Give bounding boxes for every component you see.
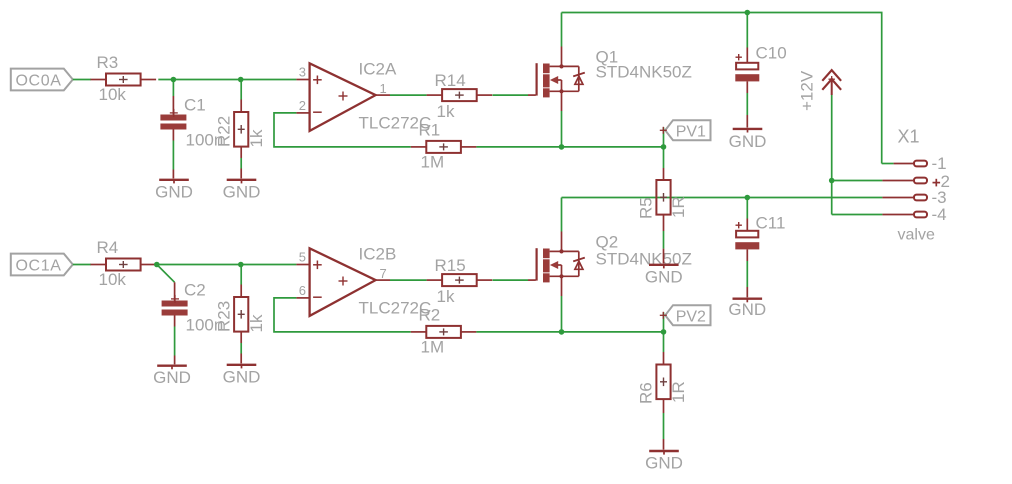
resistor R4 10k — [91, 238, 157, 289]
svg-text:R6: R6 — [637, 382, 656, 404]
wire junction to R22 — [240, 80, 242, 113]
supply +12V — [798, 70, 842, 111]
svg-text:10k: 10k — [99, 85, 127, 104]
ground below C10 — [729, 81, 767, 150]
wire OC0A to R3 — [73, 79, 91, 81]
wire junction to R23 — [240, 265, 242, 298]
net flag PV2 — [660, 305, 711, 332]
svg-text:R14: R14 — [435, 71, 466, 90]
wire feedback IC2A pin 2 to R1 — [274, 113, 411, 147]
junction node PV1 — [661, 144, 667, 150]
capacitor C11 — [735, 214, 785, 250]
wire R4 to IC2B pin 5 — [157, 264, 297, 266]
wire PV2 node to R6 — [663, 332, 665, 365]
svg-text:R22: R22 — [215, 116, 234, 147]
junction Q2 source — [559, 329, 565, 335]
junction top rail to C10 — [745, 10, 751, 16]
wire Q2 source to PV2 row — [561, 296, 563, 332]
junction -3 net to C11 — [745, 195, 751, 201]
wire top rail +12V net — [562, 13, 882, 164]
junction node C1 — [171, 77, 177, 83]
wire R14 to Q1 gate — [493, 94, 529, 96]
junction node R22 — [238, 77, 244, 83]
svg-text:GND: GND — [155, 182, 193, 201]
svg-text:1R: 1R — [669, 196, 688, 218]
svg-text:-4: -4 — [932, 205, 947, 224]
svg-text:1k: 1k — [247, 314, 266, 332]
svg-text:R3: R3 — [97, 53, 119, 72]
svg-text:R4: R4 — [97, 238, 119, 257]
junction node PV2 — [661, 329, 667, 335]
svg-text:C1: C1 — [184, 96, 206, 115]
junction node C2 — [154, 262, 160, 268]
svg-text:C2: C2 — [184, 281, 206, 300]
svg-text:GND: GND — [728, 300, 766, 319]
svg-text:C10: C10 — [756, 44, 787, 63]
svg-text:R1: R1 — [419, 121, 441, 140]
resistor R2 1M — [411, 306, 477, 357]
svg-text:GND: GND — [223, 367, 261, 386]
wire junction to C2 (diagonal) — [157, 265, 175, 301]
svg-text:IC2A: IC2A — [359, 60, 397, 79]
connector X1 name — [898, 127, 920, 147]
svg-text:6: 6 — [299, 283, 306, 298]
ground below R6 — [645, 399, 683, 472]
wire OC1A to R4 — [73, 264, 91, 266]
capacitor C2 100n — [162, 281, 224, 335]
svg-text:STD4NK50Z: STD4NK50Z — [596, 63, 692, 82]
X1 pin 3 — [882, 188, 946, 207]
svg-text:7: 7 — [380, 266, 387, 281]
svg-text:GND: GND — [645, 454, 683, 473]
junction node R23 — [238, 262, 244, 268]
wire Q1 source to PV1 row — [561, 111, 563, 147]
svg-text:10k: 10k — [99, 270, 127, 289]
wire IC2B output to R15 — [390, 279, 427, 281]
junction Q1 source — [559, 144, 565, 150]
transistor Q2 STD4NK50Z — [528, 232, 692, 297]
resistor R6 1R — [637, 365, 689, 405]
wire -3 net row — [562, 198, 883, 232]
svg-text:R2: R2 — [419, 306, 441, 325]
svg-text:1M: 1M — [421, 338, 445, 357]
resistor R5 1R — [637, 180, 689, 219]
svg-text:PV2: PV2 — [676, 308, 706, 325]
svg-text:-1: -1 — [932, 154, 947, 173]
svg-text:OC1A: OC1A — [16, 257, 62, 274]
op-amp IC2B TLC272C — [296, 245, 431, 318]
X1 value valve — [898, 227, 935, 244]
svg-text:GND: GND — [153, 368, 191, 387]
svg-text:1R: 1R — [669, 381, 688, 403]
svg-text:OC0A: OC0A — [16, 72, 62, 89]
svg-text:PV1: PV1 — [676, 123, 706, 140]
op-amp IC2A TLC272C — [296, 60, 431, 133]
X1 pin 1 — [882, 154, 947, 173]
svg-text:1M: 1M — [421, 153, 445, 172]
net flag OC1A — [11, 254, 73, 276]
wire junction to C1 — [172, 80, 174, 115]
wire rail to C10 — [746, 13, 748, 63]
net flag OC0A — [11, 69, 73, 91]
svg-text:R15: R15 — [435, 256, 466, 275]
ground below R23 — [223, 332, 261, 387]
svg-text:1k: 1k — [437, 287, 455, 306]
resistor R15 1k — [427, 256, 493, 306]
wire R2 to node PV2 — [476, 331, 663, 333]
resistor R1 1M — [411, 121, 477, 172]
net flag PV1 — [660, 120, 711, 147]
ground below C1 — [155, 130, 193, 202]
ground below C2 — [153, 316, 191, 388]
svg-text:GND: GND — [645, 267, 683, 286]
X1 pin 2 — [882, 172, 950, 191]
svg-text:GND: GND — [729, 132, 767, 151]
svg-text:C11: C11 — [756, 214, 786, 233]
wire feedback IC2B pin 6 to R2 — [274, 298, 411, 332]
svg-text:+12V: +12V — [798, 70, 817, 111]
wire R1 to node PV1 — [476, 146, 663, 148]
ground below R22 — [223, 147, 261, 202]
svg-text:valve: valve — [898, 227, 935, 244]
X1 pin 4 — [882, 205, 946, 224]
svg-text:5: 5 — [299, 249, 306, 264]
resistor R23 1k — [215, 297, 267, 333]
svg-text:3: 3 — [299, 64, 306, 79]
wire R15 to Q2 gate — [493, 279, 529, 281]
transistor Q1 STD4NK50Z — [528, 47, 692, 112]
svg-text:GND: GND — [223, 182, 261, 201]
svg-text:R5: R5 — [637, 197, 656, 219]
svg-text:1: 1 — [380, 81, 387, 96]
svg-text:1k: 1k — [247, 129, 266, 147]
svg-text:1k: 1k — [437, 102, 455, 121]
ground below R5 — [645, 215, 683, 287]
wire Q2 drain — [561, 232, 563, 252]
svg-text:X1: X1 — [898, 127, 920, 147]
wire IC2A output to R14 — [390, 94, 427, 96]
wire -3 net to C11 — [746, 198, 748, 231]
ground below C11 — [728, 249, 766, 319]
wire PV1 node to R5 — [663, 147, 665, 180]
resistor R14 1k — [427, 71, 493, 121]
svg-text:2: 2 — [299, 98, 306, 113]
resistor R3 10k — [91, 53, 157, 104]
svg-text:R23: R23 — [215, 301, 234, 332]
capacitor C1 100n — [160, 96, 223, 150]
resistor R22 1k — [215, 112, 267, 148]
capacitor C10 — [735, 44, 786, 82]
svg-text:IC2B: IC2B — [359, 245, 397, 264]
junction +12V pin2 — [829, 178, 835, 184]
wire R3 to IC2A pin 3 — [158, 79, 296, 81]
wire +12V to X1 pin 2 — [832, 95, 883, 215]
wire +12V to X1 pin 4 — [832, 214, 883, 216]
